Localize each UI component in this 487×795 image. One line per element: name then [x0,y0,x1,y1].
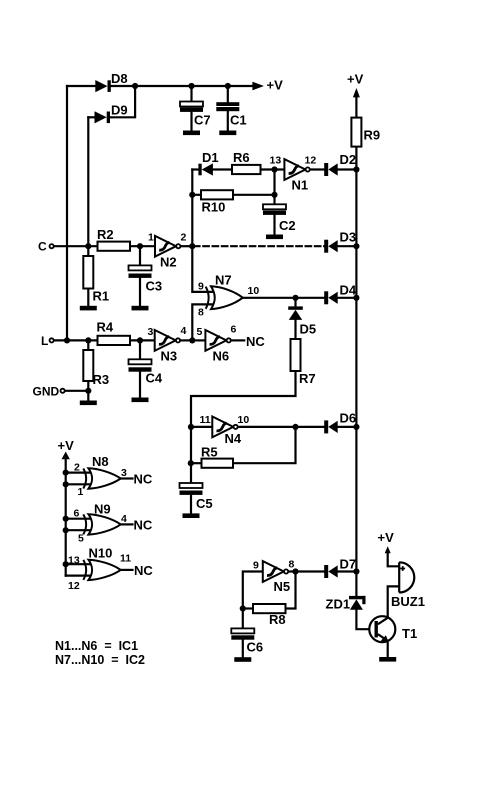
wire dashed N2 node to D3 [194,245,324,247]
resistor R7 [291,339,316,386]
svg-text:10: 10 [238,414,250,426]
svg-text:N4: N4 [225,431,242,446]
wire +V to R9 [355,97,357,118]
wire top +V rail left segment [67,85,95,87]
svg-text:C7: C7 [194,113,211,128]
supply arrow +V top [252,78,283,93]
node dot N8 pin2 [63,470,69,476]
ground below T1 [379,657,396,662]
diode D5 [288,306,316,336]
wire R3 bottom lead [87,381,89,401]
svg-text:3: 3 [121,467,127,479]
svg-text:2: 2 [181,232,187,244]
svg-text:4: 4 [181,325,187,337]
ground below C6 [234,657,251,662]
wire N4 input [191,426,212,428]
ground below C2 [266,235,283,240]
wire N1 output to D2 [310,168,324,170]
wire N10 output [121,569,133,571]
node dot N9 pin5 [63,527,69,533]
wire N3 output to node [180,339,192,341]
wire +V rail for N8 N9 N10 [65,459,67,575]
resistor R8 [253,604,286,627]
svg-text:+V: +V [267,78,284,93]
xor gate N7 [198,273,259,319]
wire N7 pin8 elbow [192,304,217,340]
resistor R10 [201,190,233,214]
zener ZD1 [326,596,366,612]
wire N4 output to D6 [238,426,324,428]
resistor R5 [201,445,233,468]
wire C input line [55,245,98,247]
supply arrow +V buzzer [378,530,395,553]
svg-text:D4: D4 [340,283,357,298]
wire BUZ1 plus lead [388,553,400,567]
wire R6 to node13 to N1 [261,168,285,170]
capacitor C3 [129,265,163,293]
diode D8 [95,71,127,92]
wire N6 output to NC [231,339,244,341]
inverter N5 pins [253,559,295,572]
inverter N2 pins [148,232,187,244]
svg-text:N2: N2 [160,255,177,270]
diode D4 [324,283,357,305]
wire R7 bottom elbow to left riser [191,371,296,483]
wire D1 to R6 [213,168,232,170]
svg-text:C1: C1 [230,113,247,128]
wire R8 right elbow up [286,572,296,609]
node dot GND R3 [85,388,91,394]
wire R4 to N3 [130,339,155,341]
supply arrow +V right [347,72,364,98]
wire N8 input stubs [66,473,93,485]
inverter N6 [205,330,265,364]
svg-text:BUZ1: BUZ1 [391,594,425,609]
supply arrow +V gates [58,438,75,459]
buzzer BUZ1 [391,562,425,609]
wire T1 emitter lead [387,642,389,657]
svg-text:R4: R4 [97,320,114,335]
diode D1 [198,150,218,176]
wire C5 bottom lead [190,495,192,513]
node dot D2 rail [353,166,359,172]
terminal GND [33,385,65,399]
wire N9 output [121,523,133,525]
svg-text:C5: C5 [196,496,213,511]
inverter N6 pins [197,324,237,339]
svg-text:9: 9 [198,281,204,293]
wire N2 output to node [181,245,192,247]
inverter N3 pins [148,325,187,338]
svg-text:N7: N7 [215,273,232,288]
svg-text:12: 12 [305,155,317,167]
resistor R4 [97,320,131,346]
op N1 pin labels [270,155,317,167]
wire D5 top stub [294,298,296,307]
svg-text:C3: C3 [146,279,163,294]
svg-text:2: 2 [74,462,80,474]
svg-text:5: 5 [197,326,203,338]
wire R5 left stub [191,462,202,464]
terminal C [38,240,54,254]
wire N8 output [121,477,133,479]
node dot R10 left [189,192,195,198]
svg-text:11: 11 [120,553,131,565]
svg-text:D2: D2 [340,152,357,167]
svg-text:T1: T1 [402,626,417,641]
node dot R8 C6 [240,605,246,611]
inverter N3 [155,330,180,364]
terminal L [41,334,54,348]
svg-text:D1: D1 [202,150,219,165]
svg-text:11: 11 [200,414,211,426]
node dot top rail D8 [132,83,138,89]
wire C3 leads [139,246,141,306]
wire T1 collector to BUZ1 [388,586,405,617]
wire D2 to rail [338,168,357,170]
ground below C4 [132,398,149,403]
wire right rail D2 to ZD1 [355,170,357,596]
wire L input line [55,339,98,341]
svg-text:D5: D5 [300,322,317,337]
xor gate N9 [74,502,153,545]
svg-text:9: 9 [253,560,259,572]
node dot R3 top [85,337,91,343]
svg-text:N7...N10 = IC2: N7...N10 = IC2 [55,653,145,667]
ground below C3 [132,306,149,311]
node dot D3 rail [353,243,359,249]
svg-text:GND: GND [33,385,60,399]
svg-text:8: 8 [198,307,204,319]
svg-text:D3: D3 [340,230,357,245]
svg-text:R1: R1 [93,289,110,304]
node dot D6 rail [353,424,359,430]
wire node to N6 input [192,339,205,341]
svg-text:13: 13 [68,555,80,567]
xor gate N10 [68,546,153,593]
svg-text:8: 8 [289,559,295,571]
svg-text:R6: R6 [233,150,250,165]
inverter N4 [212,417,242,447]
svg-text:+V: +V [58,438,75,453]
capacitor C5 [180,483,213,511]
wire ZD1 to T1 base [356,610,374,630]
node dot N8 pin1 [63,481,69,487]
svg-text:3: 3 [148,326,154,338]
wire left rail x67 from top to L line [66,86,68,340]
diode D2 [324,152,356,176]
wire R10 right [233,194,275,196]
node dot N3 output [189,337,195,343]
wire C6 leads [242,609,244,658]
wire R8 left stub [243,607,253,609]
resistor R2 [97,227,130,251]
svg-text:N1...N6 = IC1: N1...N6 = IC1 [55,639,138,653]
wire C2 bottom lead [273,215,275,235]
node dot R5 left [188,460,194,466]
wire D9 anode to left [88,116,94,118]
ground below R3 [80,401,97,406]
svg-text:NC: NC [134,563,153,578]
resistor R1 [83,256,109,304]
inverter N4 pins [200,414,250,426]
svg-text:13: 13 [270,155,282,167]
svg-text:D7: D7 [340,557,357,572]
note IC assignment text [55,639,145,667]
diode D6 [324,411,356,434]
svg-text:N10: N10 [89,546,113,561]
wire N7 pin9 elbow [192,246,217,292]
svg-text:10: 10 [248,285,260,297]
wire D9 cathode to riser [111,86,135,117]
wire R1 bottom lead [87,289,89,306]
wire D1 left stub [192,168,198,170]
node dot R10 right [271,192,277,198]
svg-text:R5: R5 [201,445,218,460]
node dot N5 output [292,568,298,574]
node dot N10 pin13 [63,561,69,567]
xor gate N8 [74,454,153,498]
svg-text:L: L [41,334,48,348]
wire vertical x192 D1 node to N2 node [191,170,193,247]
wire R1 top lead [87,246,89,256]
node dot R1 top [85,243,91,249]
svg-text:R7: R7 [299,371,316,386]
wire C4 leads [139,340,141,397]
node dot C7 [188,83,194,89]
node dot C3 top [137,243,143,249]
wire D4 to rail [338,297,357,299]
wire GND input line [66,390,89,392]
inverter N1 [284,159,309,192]
ground below C7 [183,131,200,136]
ground below C1 [219,131,236,136]
wire D6 to rail [338,426,357,428]
svg-text:1: 1 [78,486,84,498]
wire R2 to N2 [130,245,155,247]
transistor T1 [369,616,417,642]
svg-text:NC: NC [134,518,153,533]
svg-text:C2: C2 [279,218,296,233]
svg-text:+V: +V [378,530,395,545]
node dot C1 [225,83,231,89]
wire N10 input stubs [66,564,93,575]
svg-text:4: 4 [121,513,127,525]
svg-text:1: 1 [148,232,154,244]
wire C1 leads [227,86,229,131]
wire R3 top lead [87,340,89,350]
svg-text:C4: C4 [146,371,163,386]
node dot N2 output [189,243,195,249]
svg-text:R10: R10 [202,200,226,215]
node dot left rail L [64,337,70,343]
diode D3 [324,230,356,253]
svg-text:6: 6 [74,508,80,520]
wire D7 to rail [338,570,357,572]
svg-text:NC: NC [246,334,265,349]
resistor R3 [83,350,109,387]
wire top +V rail main segment [111,85,253,87]
capacitor C6 [231,628,263,654]
ground below R1 [80,306,97,311]
wire D6 node down to R5 [233,427,296,463]
svg-text:NC: NC [134,472,153,487]
svg-text:N6: N6 [213,349,230,364]
node dot D4 branch [292,295,298,301]
wire C7 leads [190,86,192,131]
svg-text:N8: N8 [92,454,109,469]
svg-text:R8: R8 [269,612,286,627]
capacitor C4 [129,359,163,385]
svg-text:ZD1: ZD1 [326,597,351,612]
capacitor C7 [180,102,211,128]
inverter N5 [263,561,290,594]
wire D3 to rail [338,245,357,247]
svg-text:6: 6 [231,324,237,336]
node dot N4 input [188,424,194,430]
wire node13 vertical to C2 [273,170,275,205]
resistor R6 [232,150,261,174]
wire D5 to R7 [294,320,296,340]
node dot D6 branch [292,424,298,430]
capacitor C2 [263,204,296,233]
wire R10 left [192,194,201,196]
svg-text:N5: N5 [274,579,291,594]
node dot node13 top [271,166,277,172]
node dot D7 rail [353,568,359,574]
svg-text:N1: N1 [292,178,309,193]
wire N5 input elbow [243,572,263,609]
svg-text:D8: D8 [111,71,128,86]
wire N5 output to D7 [289,570,324,572]
capacitor C1 [216,102,246,127]
diode D7 [324,557,356,579]
svg-text:C: C [38,240,47,254]
diode D9 [95,103,128,124]
wire R9 to D2 node [355,147,357,170]
svg-text:C6: C6 [247,640,264,655]
wire N9 input stubs [66,519,93,531]
svg-text:D6: D6 [340,411,357,426]
svg-text:12: 12 [68,580,80,592]
node dot D4 rail [353,295,359,301]
svg-text:R9: R9 [364,128,381,143]
node dot C4 top [137,337,143,343]
svg-text:D9: D9 [111,103,128,118]
svg-text:+V: +V [347,72,364,87]
svg-text:R2: R2 [97,227,114,242]
resistor R9 [351,118,380,147]
wire N7 output to D4 [243,297,325,299]
svg-text:R3: R3 [93,372,110,387]
svg-text:N3: N3 [161,349,178,364]
node dot N9 pin6 [63,516,69,522]
svg-text:5: 5 [78,533,84,545]
inverter N2 [155,236,180,270]
ground below C5 [183,513,200,518]
wire rail x88 from D9 to C line [87,117,89,246]
svg-text:N9: N9 [94,502,111,517]
